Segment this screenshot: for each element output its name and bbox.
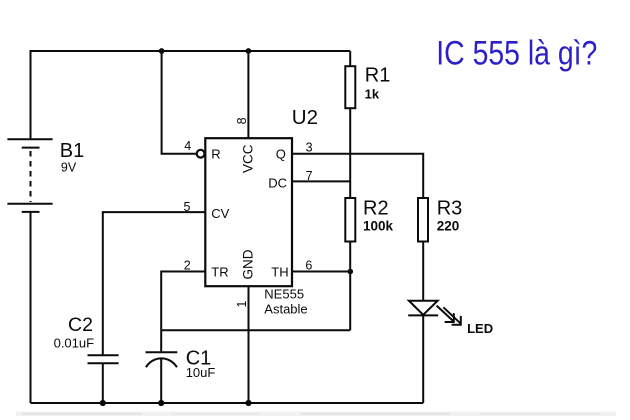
LED emission arrows bbox=[437, 306, 461, 325]
capacitor C2 bbox=[88, 355, 119, 363]
junction: pin4 riser on top rail bbox=[159, 48, 165, 54]
IC U2 NE555 body bbox=[205, 138, 292, 286]
svg-text:4: 4 bbox=[184, 139, 191, 153]
wire: C2 bottom lead bbox=[102, 363, 104, 403]
wire: Q output pin 3 to R3 bbox=[292, 154, 423, 198]
junction: pin8 riser on top rail bbox=[246, 48, 252, 54]
svg-text:C2: C2 bbox=[68, 314, 93, 336]
wire: R1 top lead from rail corner bbox=[349, 51, 351, 66]
wire: battery - lead down to ground rail bbox=[30, 213, 32, 404]
svg-text:0.01uF: 0.01uF bbox=[54, 335, 95, 350]
svg-text:R: R bbox=[211, 146, 220, 161]
svg-text:GND: GND bbox=[241, 249, 256, 279]
wire: trigger pin 2 net down to C1 bbox=[161, 272, 205, 353]
svg-text:R3: R3 bbox=[437, 198, 463, 220]
svg-text:R1: R1 bbox=[365, 65, 391, 87]
wire: R1 bottom to R2 top (crosses Q line, joins pin7) bbox=[349, 108, 351, 198]
battery B1 bbox=[7, 139, 52, 212]
svg-text:100k: 100k bbox=[363, 219, 394, 234]
svg-text:2: 2 bbox=[184, 258, 191, 272]
resistor R1 bbox=[345, 66, 355, 108]
wire: bottom link TR to TH bbox=[161, 329, 350, 331]
wire: R2 bottom lead down to TR/TH link bbox=[349, 242, 351, 331]
svg-text:DC: DC bbox=[268, 175, 287, 190]
svg-text:CV: CV bbox=[211, 206, 229, 221]
svg-text:R2: R2 bbox=[363, 198, 389, 220]
wire: C1 bottom lead bbox=[160, 359, 162, 403]
svg-text:NE555: NE555 bbox=[264, 287, 304, 302]
junction: C1 on ground rail bbox=[158, 400, 164, 406]
resistor R2 bbox=[345, 198, 355, 242]
wire: reset pin 4 net from top rail to bubble bbox=[162, 51, 197, 154]
svg-text:6: 6 bbox=[305, 258, 312, 272]
svg-text:9V: 9V bbox=[61, 161, 77, 175]
junction: pin1 on ground rail bbox=[245, 400, 251, 406]
decorative cropped-text smudge at bottom bbox=[16, 412, 616, 416]
svg-text:Astable: Astable bbox=[264, 302, 307, 317]
svg-text:TR: TR bbox=[211, 265, 228, 280]
capacitor C1 (polarized) bbox=[146, 352, 178, 367]
svg-text:VCC: VCC bbox=[241, 144, 256, 173]
wire: battery top lead bbox=[30, 50, 32, 139]
wire: bottom ground rail bbox=[31, 402, 424, 404]
svg-text:3: 3 bbox=[306, 140, 313, 154]
junction: pin6 / R2 node bbox=[348, 269, 354, 275]
junction: C2 on ground rail bbox=[100, 400, 106, 406]
resistor R3 bbox=[418, 198, 428, 242]
svg-text:U2: U2 bbox=[292, 106, 318, 129]
wire: GND pin 1 lead to ground rail bbox=[248, 286, 250, 403]
svg-text:IC 555 là gì?: IC 555 là gì? bbox=[436, 34, 597, 72]
svg-text:10uF: 10uF bbox=[186, 365, 216, 380]
svg-text:1k: 1k bbox=[365, 87, 380, 102]
wire: threshold pin 6 lead bbox=[292, 271, 350, 273]
svg-text:LED: LED bbox=[467, 321, 493, 336]
wire: VCC pin 8 lead from top rail bbox=[247, 51, 249, 140]
wire: top rail VCC from battery + to R1 bbox=[31, 50, 351, 52]
svg-text:220: 220 bbox=[437, 219, 460, 234]
pin 4 inversion bubble bbox=[197, 150, 205, 158]
LED D1 symbol bbox=[408, 301, 438, 316]
svg-text:8: 8 bbox=[235, 117, 249, 124]
wire: discharge pin 7 lead bbox=[292, 180, 350, 182]
svg-text:1: 1 bbox=[235, 301, 249, 308]
wire: control pin 5 net to C2 bbox=[103, 212, 206, 355]
wire: LED cathode lead to ground rail bbox=[422, 315, 424, 403]
wire: R3 bottom lead to LED anode bbox=[422, 242, 424, 301]
svg-text:Q: Q bbox=[276, 146, 286, 161]
svg-text:TH: TH bbox=[271, 265, 288, 280]
svg-text:B1: B1 bbox=[60, 140, 84, 162]
